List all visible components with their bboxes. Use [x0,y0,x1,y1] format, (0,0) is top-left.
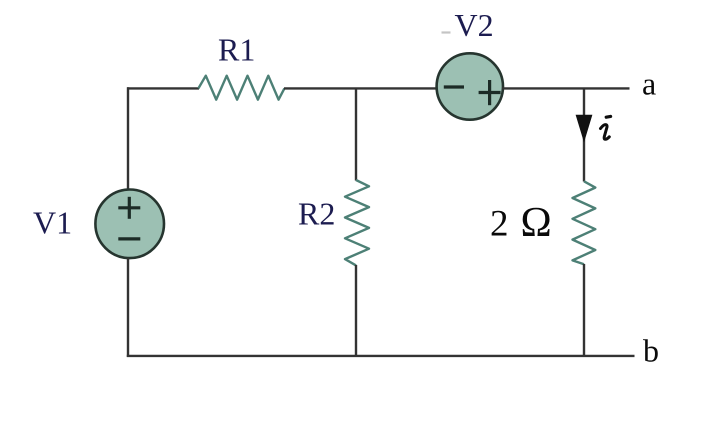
wire right vertical lower (2-ohm to bottom wire) [583,264,585,356]
label i [601,116,611,139]
wire top-left horizontal segment [127,87,199,89]
wire left vertical upper (top corner to V1) [127,87,129,190]
wire bottom horizontal [127,355,635,357]
voltage source V2 [437,53,503,119]
wire from R1 to V2 [284,87,438,89]
svg-text:2: 2 [490,204,509,245]
svg-text:R1: R1 [218,32,255,68]
wire middle vertical upper (top wire to R2) [355,88,357,180]
svg-text:a: a [642,66,656,102]
wire left vertical lower (V1 to bottom corner) [127,258,129,357]
svg-text:V2: V2 [455,7,494,43]
wire middle vertical lower (R2 to bottom wire) [355,265,357,356]
current arrow i [576,115,593,143]
resistor 2-ohm [573,181,596,264]
artifact dash left of V2 label [442,31,451,33]
resistor R1 [198,76,284,100]
voltage source V1 [95,190,164,259]
svg-text:b: b [643,333,659,369]
wire from V2 to node a [502,87,630,89]
wire right vertical upper (node a to 2-ohm resistor) [583,88,585,181]
svg-text:Ω: Ω [521,200,552,246]
svg-text:R2: R2 [298,196,335,232]
resistor R2 [345,180,369,265]
svg-text:V1: V1 [33,205,72,241]
label 2 ohm [490,200,552,246]
